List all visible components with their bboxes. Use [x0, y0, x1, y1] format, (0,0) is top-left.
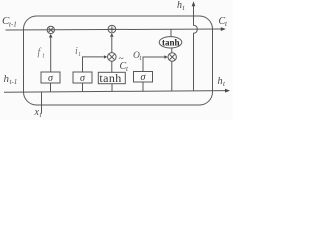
svg-text:tanh: tanh	[162, 38, 180, 48]
svg-text:t-1: t-1	[9, 21, 17, 29]
svg-text:tanh: tanh	[99, 71, 121, 85]
svg-text:h: h	[177, 0, 182, 11]
svg-text:h: h	[218, 76, 223, 87]
svg-text:~: ~	[119, 54, 124, 64]
svg-text:t-1: t-1	[10, 78, 18, 86]
